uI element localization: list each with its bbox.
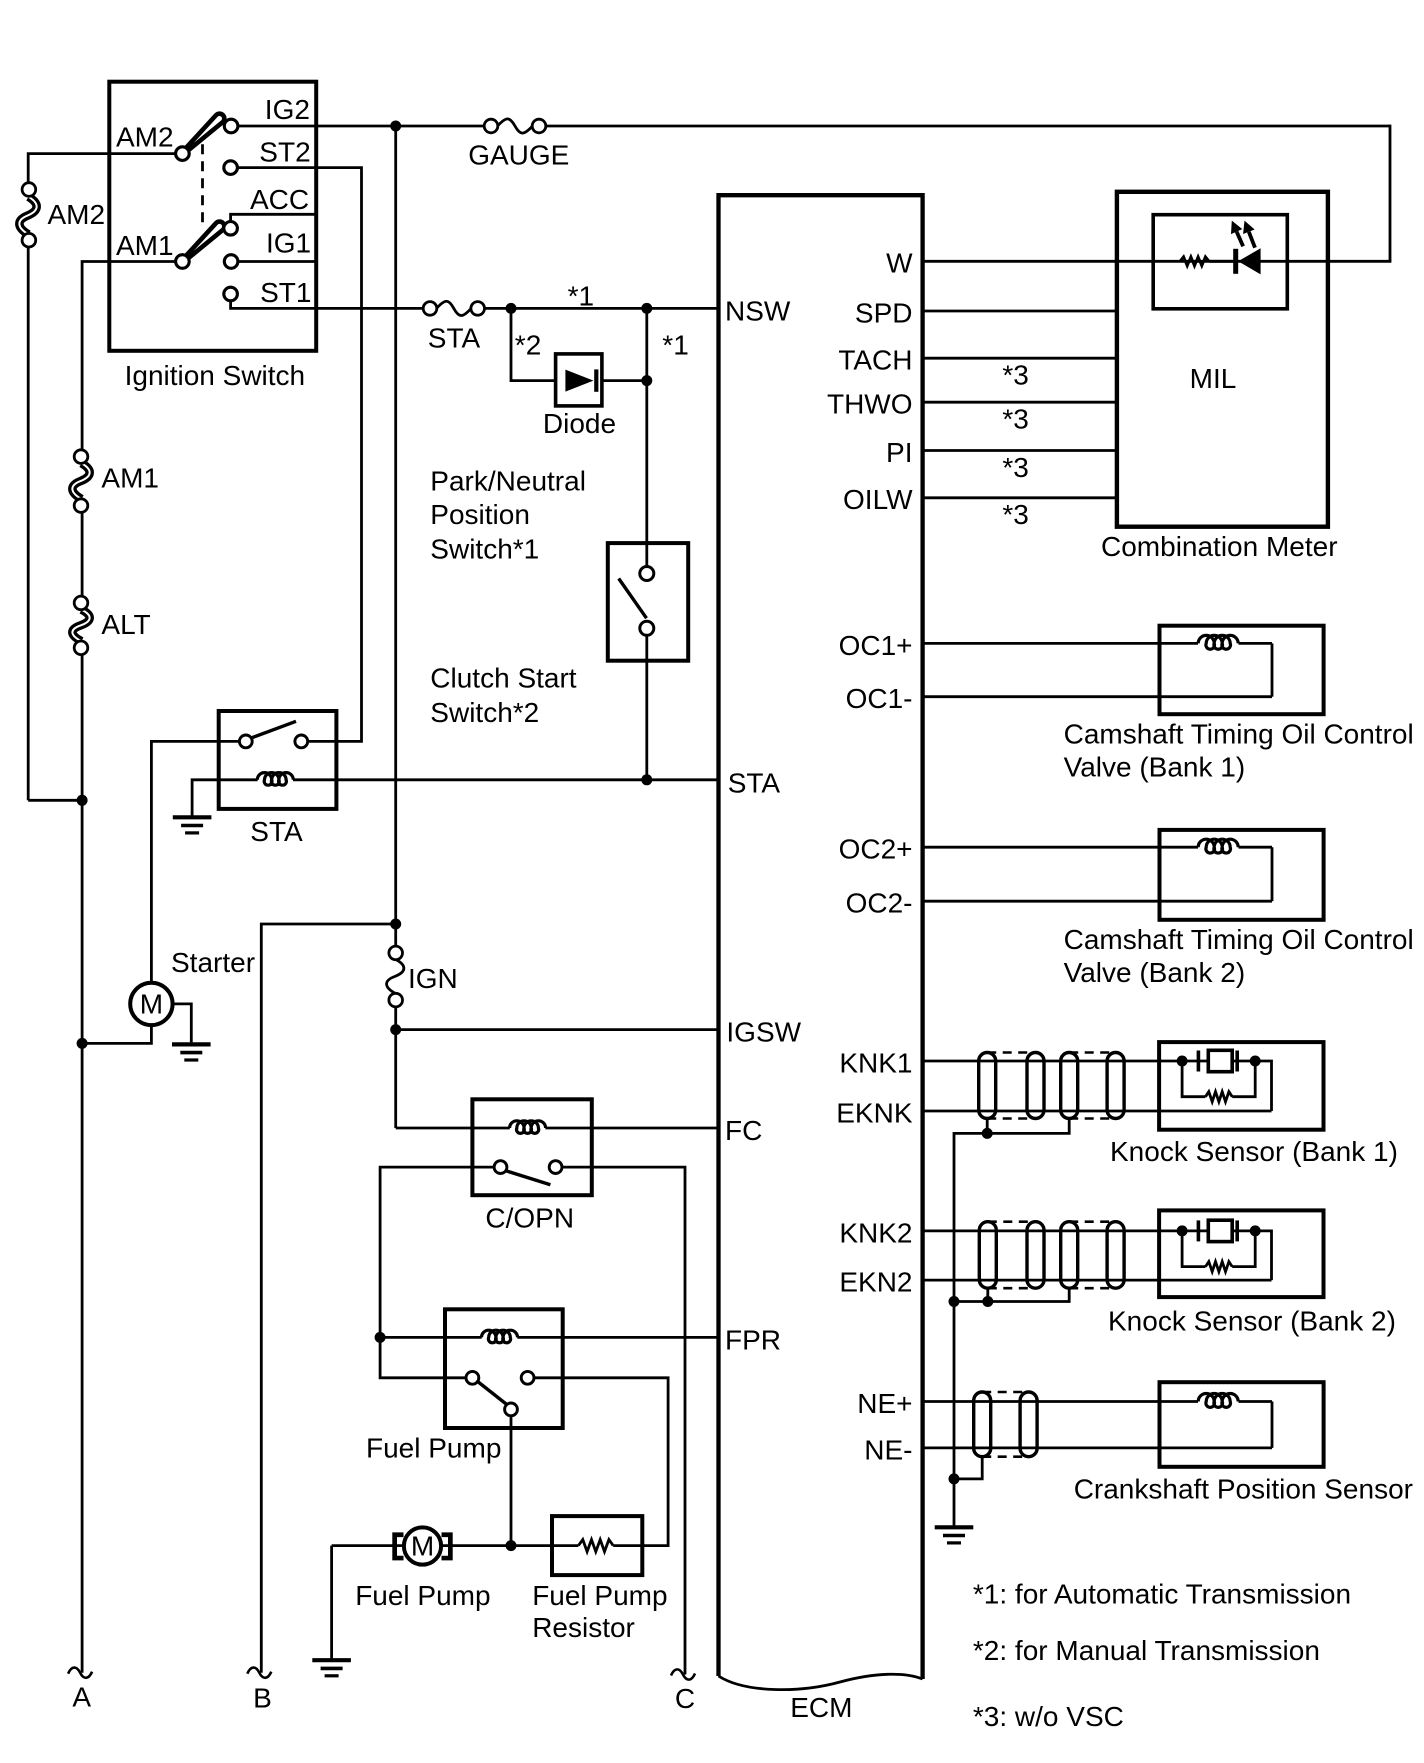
svg-text:Knock Sensor (Bank 1): Knock Sensor (Bank 1) bbox=[1110, 1136, 1398, 1167]
svg-text:Fuel Pump: Fuel Pump bbox=[355, 1580, 490, 1611]
svg-text:Valve (Bank 1): Valve (Bank 1) bbox=[1064, 751, 1246, 782]
svg-text:IGSW: IGSW bbox=[726, 1017, 801, 1048]
svg-text:IG1: IG1 bbox=[266, 228, 311, 259]
svg-text:Fuel Pump: Fuel Pump bbox=[532, 1580, 667, 1611]
svg-text:KNK1: KNK1 bbox=[839, 1047, 912, 1078]
svg-text:Resistor: Resistor bbox=[532, 1612, 635, 1643]
svg-text:*1: *1 bbox=[568, 280, 594, 311]
svg-text:PI: PI bbox=[886, 437, 912, 468]
svg-text:STA: STA bbox=[428, 322, 481, 353]
svg-text:ST1: ST1 bbox=[260, 277, 311, 308]
svg-text:NE-: NE- bbox=[864, 1434, 912, 1465]
svg-text:FPR: FPR bbox=[725, 1324, 781, 1355]
svg-text:Park/Neutral: Park/Neutral bbox=[430, 466, 586, 497]
svg-text:NE+: NE+ bbox=[857, 1388, 912, 1419]
svg-text:A: A bbox=[72, 1682, 91, 1713]
svg-text:SPD: SPD bbox=[855, 297, 913, 328]
svg-text:Position: Position bbox=[430, 499, 530, 530]
svg-text:ECM: ECM bbox=[790, 1692, 852, 1723]
svg-text:KNK2: KNK2 bbox=[839, 1217, 912, 1248]
svg-text:*3: w/o VSC: *3: w/o VSC bbox=[973, 1701, 1124, 1732]
svg-text:AM2: AM2 bbox=[48, 199, 106, 230]
svg-text:Camshaft Timing Oil Control: Camshaft Timing Oil Control bbox=[1064, 924, 1414, 955]
svg-text:IG2: IG2 bbox=[265, 94, 310, 125]
svg-text:IGN: IGN bbox=[408, 963, 458, 994]
svg-text:THWO: THWO bbox=[827, 389, 913, 420]
svg-text:C: C bbox=[675, 1683, 695, 1714]
svg-text:Camshaft Timing Oil Control: Camshaft Timing Oil Control bbox=[1064, 718, 1414, 749]
svg-text:AM2: AM2 bbox=[116, 122, 174, 153]
svg-text:ST2: ST2 bbox=[259, 136, 310, 167]
svg-text:*1: *1 bbox=[662, 330, 688, 361]
svg-text:C/OPN: C/OPN bbox=[485, 1203, 574, 1234]
svg-text:*3: *3 bbox=[1002, 404, 1028, 435]
svg-text:Starter: Starter bbox=[171, 947, 255, 978]
svg-text:OILW: OILW bbox=[843, 484, 913, 515]
svg-text:ALT: ALT bbox=[101, 609, 150, 640]
svg-text:STA: STA bbox=[250, 816, 303, 847]
svg-text:*3: *3 bbox=[1002, 499, 1028, 530]
svg-text:Knock Sensor (Bank 2): Knock Sensor (Bank 2) bbox=[1108, 1306, 1396, 1337]
svg-text:Crankshaft Position Sensor: Crankshaft Position Sensor bbox=[1074, 1474, 1413, 1505]
svg-text:*3: *3 bbox=[1002, 360, 1028, 391]
svg-text:*2: for Manual Transmission: *2: for Manual Transmission bbox=[973, 1635, 1320, 1666]
svg-text:AM1: AM1 bbox=[101, 463, 159, 494]
svg-text:Switch*2: Switch*2 bbox=[430, 697, 539, 728]
svg-text:OC2+: OC2+ bbox=[839, 834, 913, 865]
svg-text:M: M bbox=[411, 1531, 434, 1562]
svg-text:W: W bbox=[886, 248, 913, 279]
svg-text:EKN2: EKN2 bbox=[839, 1267, 912, 1298]
svg-text:FC: FC bbox=[725, 1115, 762, 1146]
svg-text:Switch*1: Switch*1 bbox=[430, 533, 539, 564]
svg-text:Diode: Diode bbox=[543, 408, 616, 439]
svg-text:OC2-: OC2- bbox=[846, 888, 913, 919]
svg-text:*2: *2 bbox=[515, 329, 541, 360]
svg-text:OC1+: OC1+ bbox=[839, 630, 913, 661]
svg-text:EKNK: EKNK bbox=[836, 1097, 913, 1128]
svg-text:STA: STA bbox=[728, 767, 781, 798]
svg-text:NSW: NSW bbox=[725, 295, 791, 326]
svg-text:Valve (Bank 2): Valve (Bank 2) bbox=[1064, 957, 1246, 988]
svg-text:OC1-: OC1- bbox=[846, 683, 913, 714]
svg-text:ACC: ACC bbox=[250, 184, 309, 215]
svg-text:GAUGE: GAUGE bbox=[468, 139, 569, 170]
svg-text:MIL: MIL bbox=[1190, 363, 1237, 394]
svg-text:B: B bbox=[253, 1683, 272, 1714]
svg-text:Fuel Pump: Fuel Pump bbox=[366, 1433, 501, 1464]
svg-text:*1: for Automatic Transmission: *1: for Automatic Transmission bbox=[973, 1579, 1351, 1610]
svg-text:Combination Meter: Combination Meter bbox=[1101, 531, 1338, 562]
svg-text:AM1: AM1 bbox=[116, 230, 174, 261]
svg-text:TACH: TACH bbox=[838, 345, 912, 376]
svg-text:Clutch Start: Clutch Start bbox=[430, 663, 576, 694]
svg-text:Ignition Switch: Ignition Switch bbox=[125, 360, 306, 391]
svg-text:*3: *3 bbox=[1002, 452, 1028, 483]
svg-text:M: M bbox=[140, 989, 163, 1020]
